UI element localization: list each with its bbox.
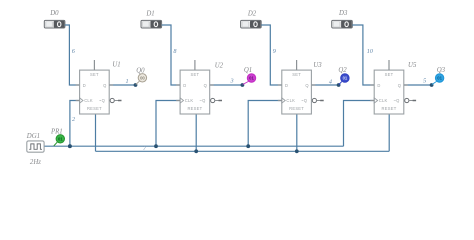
- svg-text:10: 10: [367, 48, 374, 55]
- D flip-flop U2: [180, 70, 210, 114]
- svg-text:5: 5: [423, 78, 426, 85]
- wire: clock bus net 2/7 from DG1 across schematic: [44, 145, 344, 147]
- grey pin stubs at D, CLK, Q pins: [370, 84, 374, 86]
- wire: U5 RESET pin to reset bus: [388, 114, 390, 151]
- U2 ~Q bubble: [211, 98, 215, 102]
- probe Q0: [136, 74, 147, 85]
- digital input D3: [332, 20, 353, 28]
- svg-text:CLK: CLK: [84, 98, 93, 103]
- junction: clock bus at U1 CLK branch: [68, 144, 72, 148]
- svg-text:SET: SET: [385, 72, 394, 77]
- U1 SET pin stub (unconnected): [93, 60, 95, 70]
- D flip-flop U5: [374, 70, 404, 114]
- U1 ~Q bubble: [110, 98, 114, 102]
- grey pin stubs at D, CLK, Q pins: [176, 84, 180, 86]
- svg-text:01: 01: [249, 76, 254, 81]
- svg-text:00: 00: [140, 76, 145, 81]
- svg-text:D1: D1: [145, 11, 154, 18]
- grey pin stubs at D, CLK, Q pins: [76, 84, 80, 86]
- svg-text:D: D: [183, 83, 186, 88]
- svg-text:D: D: [377, 83, 380, 88]
- svg-text:CLK: CLK: [379, 98, 388, 103]
- wire: clock branch to U5 CLK: [344, 101, 375, 147]
- svg-text:RESET: RESET: [382, 106, 397, 111]
- wire: net 6 from D0 to U1 D input: [65, 25, 80, 85]
- svg-text:D: D: [83, 83, 86, 88]
- U5 ~Q bubble: [405, 98, 409, 102]
- U3 ~Q pin stub (unconnected): [317, 100, 321, 102]
- svg-text:Q: Q: [398, 83, 401, 88]
- wire: U3 RESET pin to reset bus: [296, 114, 298, 151]
- U3 ~Q bubble: [312, 98, 316, 102]
- U5 SET pin stub (unconnected): [388, 60, 390, 70]
- svg-text:RESET: RESET: [289, 106, 304, 111]
- svg-text:Q3: Q3: [437, 67, 446, 74]
- svg-text:9: 9: [273, 48, 276, 55]
- junction on reset bus: [194, 149, 198, 153]
- svg-text:CLK: CLK: [185, 98, 194, 103]
- wire: U2 RESET pin to reset bus: [195, 114, 197, 151]
- svg-text:~Q: ~Q: [394, 98, 400, 103]
- U1 ~Q pin stub (unconnected): [114, 100, 118, 102]
- svg-text:U5: U5: [408, 62, 417, 69]
- wire: clock branch to U2 CLK: [156, 101, 180, 147]
- svg-text:RESET: RESET: [187, 106, 202, 111]
- svg-text:D3: D3: [338, 10, 348, 17]
- svg-text:~Q: ~Q: [99, 98, 105, 103]
- D flip-flop U1: [80, 70, 110, 114]
- svg-text:SET: SET: [90, 72, 99, 77]
- U2 SET pin stub (unconnected): [194, 60, 196, 70]
- wire: net 4 from U3 Q to probe Q2: [311, 84, 338, 86]
- svg-text:PR1: PR1: [50, 129, 63, 136]
- wire: net 10 from D3 to U5 D input: [352, 25, 374, 85]
- digital input D1: [141, 20, 162, 28]
- U2 ~Q pin stub (unconnected): [215, 100, 219, 102]
- svg-text:Q: Q: [103, 83, 106, 88]
- svg-text:2Hz: 2Hz: [30, 159, 41, 166]
- svg-text:1: 1: [125, 78, 128, 85]
- junction on reset bus: [295, 149, 299, 153]
- svg-text:2: 2: [72, 116, 75, 123]
- svg-text:U3: U3: [313, 62, 322, 69]
- probe PR1 on clock net: [54, 135, 65, 146]
- grey pin stubs at D, CLK, Q pins: [278, 84, 282, 86]
- svg-text:CLK: CLK: [286, 98, 295, 103]
- svg-text:D: D: [285, 83, 288, 88]
- probe Q1: [243, 74, 256, 85]
- probe Q2: [339, 74, 349, 85]
- junction: probe attach point: [241, 83, 245, 87]
- svg-text:Q1: Q1: [244, 67, 252, 74]
- junction on clock bus: [154, 144, 158, 148]
- wire: clock branch to U3 CLK: [248, 101, 282, 147]
- svg-text:Q0: Q0: [136, 67, 145, 74]
- junction: probe attach point: [134, 83, 138, 87]
- D flip-flop U3: [282, 70, 312, 114]
- U3 SET pin stub (unconnected): [296, 60, 298, 70]
- svg-text:Q2: Q2: [338, 67, 347, 74]
- svg-text:D0: D0: [49, 10, 59, 17]
- svg-text:Q: Q: [305, 83, 308, 88]
- junction: probe attach point: [430, 83, 434, 87]
- wire: net 3 from U2 Q to probe Q1: [210, 84, 243, 86]
- wire: net 8 from D1 to U2 D input: [162, 25, 181, 85]
- svg-text:SET: SET: [292, 72, 301, 77]
- svg-text:3: 3: [229, 78, 233, 85]
- svg-text:01: 01: [343, 76, 348, 81]
- svg-text:U1: U1: [112, 62, 120, 69]
- digital input D2: [241, 20, 262, 28]
- svg-text:4: 4: [329, 79, 332, 86]
- junction: probe attach point: [337, 83, 341, 87]
- wire: net 5 from U5 Q to probe Q3: [404, 84, 432, 86]
- U5 ~Q pin stub (unconnected): [409, 100, 413, 102]
- svg-text:D2: D2: [247, 11, 257, 18]
- svg-text:01: 01: [437, 76, 442, 81]
- svg-text:~Q: ~Q: [301, 98, 307, 103]
- wire: U1 RESET pin to reset bus: [95, 114, 97, 151]
- clock source DG1 2Hz: [27, 141, 44, 152]
- svg-text:RESET: RESET: [87, 106, 102, 111]
- wire: net 1 from U1 Q to probe Q0: [109, 84, 135, 86]
- svg-text:01: 01: [58, 137, 63, 142]
- junction on clock bus: [246, 144, 250, 148]
- svg-text:Q: Q: [204, 83, 207, 88]
- junction on clock bus: [68, 144, 72, 148]
- wire: reset bus connecting all RESET pins: [96, 150, 390, 152]
- svg-text:SET: SET: [191, 72, 200, 77]
- svg-text:DG1: DG1: [26, 133, 40, 140]
- svg-text:~Q: ~Q: [199, 98, 205, 103]
- svg-text:U2: U2: [215, 62, 224, 69]
- probe Q3: [432, 74, 444, 85]
- wire: clock branch to U1 CLK: [70, 101, 80, 147]
- digital input D0: [44, 20, 65, 28]
- wire: net 9 from D2 to U3 D input: [261, 25, 282, 85]
